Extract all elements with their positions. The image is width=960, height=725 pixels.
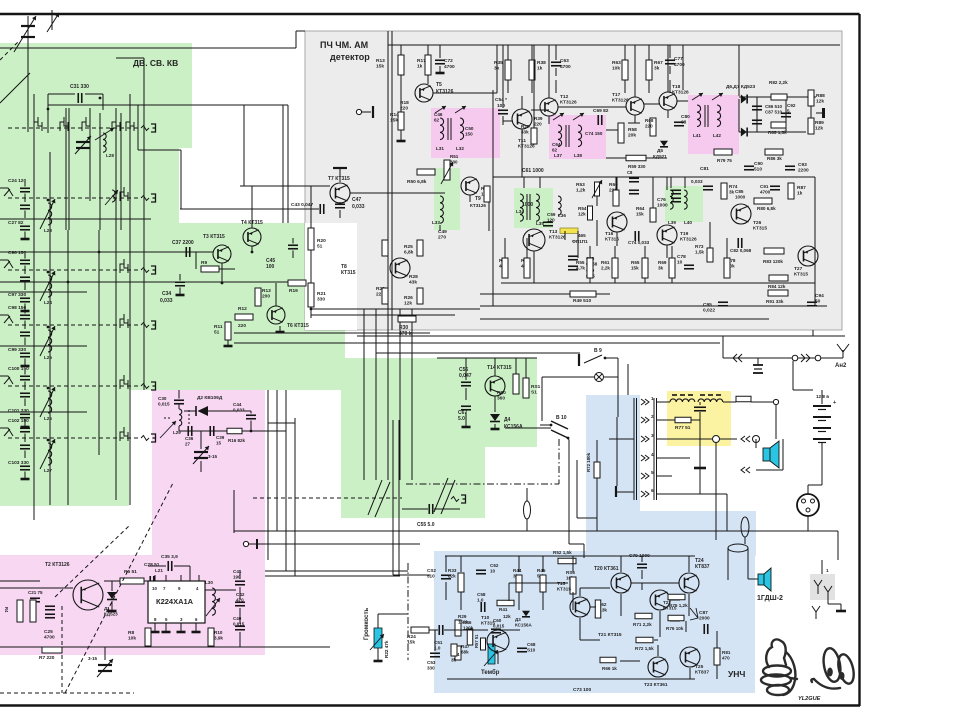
svg-text:5.0: 5.0 <box>458 416 465 422</box>
svg-text:R50 6,8k: R50 6,8k <box>407 179 427 185</box>
svg-text:0,022: 0,022 <box>703 308 715 314</box>
svg-text:360: 360 <box>497 396 505 402</box>
svg-text:R38: R38 <box>537 60 546 66</box>
svg-text:0,033: 0,033 <box>352 204 365 210</box>
svg-text:27: 27 <box>185 441 191 446</box>
svg-text:0,047: 0,047 <box>459 373 472 379</box>
svg-text:T5: T5 <box>436 82 442 88</box>
svg-text:C87 510: C87 510 <box>765 109 783 114</box>
svg-text:C95: C95 <box>703 302 712 308</box>
svg-text:100: 100 <box>266 264 275 270</box>
svg-text:C30: C30 <box>158 396 167 401</box>
svg-text:R91 33k: R91 33k <box>766 299 784 304</box>
svg-text:C35 3,9: C35 3,9 <box>161 554 178 560</box>
svg-text:R79 75: R79 75 <box>717 158 732 163</box>
svg-text:C90: C90 <box>754 161 763 167</box>
svg-text:C58: C58 <box>477 592 486 597</box>
svg-text:3k: 3k <box>729 189 735 194</box>
svg-text:S10: S10 <box>527 647 536 652</box>
svg-text:C98 150: C98 150 <box>8 305 26 311</box>
svg-text:C62: C62 <box>490 563 499 568</box>
svg-text:R16 82k: R16 82k <box>228 438 246 443</box>
svg-text:C101 330: C101 330 <box>8 408 29 414</box>
svg-text:C72: C72 <box>444 58 453 64</box>
svg-text:КТ3126: КТ3126 <box>672 90 689 96</box>
svg-text:4: 4 <box>651 452 654 457</box>
svg-text:R24: R24 <box>407 634 416 640</box>
svg-text:51: 51 <box>317 244 323 250</box>
svg-text:R59 330: R59 330 <box>628 164 646 169</box>
svg-text:C27 82: C27 82 <box>8 220 24 226</box>
svg-text:R29: R29 <box>458 614 467 619</box>
svg-text:КД523: КД523 <box>104 611 118 616</box>
svg-text:R64: R64 <box>636 206 645 211</box>
svg-text:220: 220 <box>534 121 542 126</box>
svg-text:C94: C94 <box>815 293 824 299</box>
svg-text:15k: 15k <box>407 640 415 646</box>
svg-text:R11: R11 <box>214 324 223 330</box>
svg-text:КТ3126: КТ3126 <box>560 100 577 106</box>
svg-text:R20: R20 <box>317 238 326 244</box>
svg-text:RS1: RS1 <box>531 384 541 390</box>
svg-text:220: 220 <box>400 106 408 112</box>
svg-text:0,033: 0,033 <box>233 407 245 412</box>
svg-text:R12: R12 <box>238 306 247 312</box>
svg-text:510: 510 <box>427 573 435 578</box>
svg-text:L31: L31 <box>436 146 444 151</box>
svg-text:C46: C46 <box>434 112 443 117</box>
svg-text:10: 10 <box>490 568 496 573</box>
svg-text:R13: R13 <box>376 58 385 64</box>
svg-text:330: 330 <box>317 297 325 303</box>
svg-text:12k: 12k <box>404 301 412 307</box>
svg-text:C43 0,047: C43 0,047 <box>291 202 313 208</box>
svg-text:C79 1000: C79 1000 <box>629 553 650 559</box>
svg-text:L26: L26 <box>44 416 52 421</box>
svg-text:КТ315: КТ315 <box>481 621 495 627</box>
svg-text:C100 150: C100 150 <box>8 366 29 372</box>
svg-text:T17: T17 <box>612 92 621 98</box>
svg-text:3: 3 <box>651 433 654 438</box>
svg-text:C91: C91 <box>760 184 769 189</box>
svg-text:R22 47k: R22 47k <box>384 640 389 658</box>
svg-text:2000: 2000 <box>699 616 710 622</box>
svg-text:C86 510: C86 510 <box>765 104 783 109</box>
svg-text:4700: 4700 <box>560 64 571 70</box>
svg-text:C76: C76 <box>657 197 666 203</box>
svg-text:3k: 3k <box>658 265 664 270</box>
svg-text:КС156А: КС156А <box>504 424 523 430</box>
svg-text:C39: C39 <box>216 435 225 440</box>
svg-text:0,033: 0,033 <box>691 179 703 184</box>
svg-text:62: 62 <box>434 117 440 122</box>
svg-text:R41: R41 <box>499 607 508 612</box>
svg-text:4700: 4700 <box>444 64 455 70</box>
svg-text:R33: R33 <box>448 568 457 573</box>
svg-text:L37: L37 <box>554 153 562 158</box>
svg-text:0,033: 0,033 <box>160 298 173 304</box>
svg-text:10: 10 <box>677 260 683 266</box>
svg-text:R86 3k: R86 3k <box>767 156 782 161</box>
svg-text:К224ХА1А: К224ХА1А <box>156 597 194 606</box>
svg-text:100: 100 <box>497 103 505 109</box>
svg-text:R35: R35 <box>494 60 503 66</box>
svg-text:R55: R55 <box>576 260 585 265</box>
svg-text:C68: C68 <box>527 642 536 647</box>
svg-text:R50: R50 <box>497 390 506 396</box>
svg-text:C87: C87 <box>699 610 708 616</box>
svg-text:T21 КТ315: T21 КТ315 <box>598 632 622 638</box>
svg-text:T19: T19 <box>680 231 689 237</box>
svg-text:C54 *: C54 * <box>495 97 507 103</box>
svg-text:12k: 12k <box>816 99 824 105</box>
svg-text:82k: 82k <box>448 573 456 578</box>
svg-text:C37 2200: C37 2200 <box>172 240 194 246</box>
svg-text:R10: R10 <box>214 630 223 635</box>
svg-text:C103 330: C103 330 <box>8 460 29 466</box>
svg-text:L41: L41 <box>693 133 701 138</box>
svg-text:1: 1 <box>651 396 654 401</box>
svg-text:Тембр: Тембр <box>481 669 500 676</box>
svg-text:УНЧ: УНЧ <box>728 669 745 679</box>
svg-text:R44: R44 <box>513 568 522 573</box>
svg-text:ФП1П1: ФП1П1 <box>572 239 588 244</box>
svg-text:Громкость: Громкость <box>363 607 370 640</box>
svg-text:C47: C47 <box>352 197 361 203</box>
svg-text:C92: C92 <box>787 103 796 108</box>
svg-text:R52 1,5k: R52 1,5k <box>553 550 572 555</box>
svg-text:C74 150: C74 150 <box>585 131 603 136</box>
svg-text:C25: C25 <box>44 629 53 635</box>
svg-text:ДВ. СВ. КВ: ДВ. СВ. КВ <box>133 58 178 68</box>
svg-text:Д6,Д7 КД523: Д6,Д7 КД523 <box>726 84 756 90</box>
svg-text:R73: R73 <box>695 244 704 249</box>
svg-text:1ГДШ-2: 1ГДШ-2 <box>757 595 783 602</box>
svg-text:C78: C78 <box>677 254 686 260</box>
svg-text:T27: T27 <box>794 266 803 272</box>
svg-text:R89: R89 <box>815 120 824 126</box>
svg-text:1000: 1000 <box>657 203 668 209</box>
svg-text:R72 180k: R72 180k <box>586 452 591 472</box>
svg-text:R67: R67 <box>654 60 663 66</box>
svg-text:T2 КТ3126: T2 КТ3126 <box>45 562 70 568</box>
svg-text:C61 1000: C61 1000 <box>522 168 544 174</box>
svg-text:12k: 12k <box>578 211 586 216</box>
svg-text:C59: C59 <box>547 212 556 217</box>
svg-text:КС156А: КС156А <box>515 622 532 627</box>
svg-text:R75 1,2k: R75 1,2k <box>669 603 688 608</box>
svg-text:200: 200 <box>262 294 270 300</box>
svg-text:R58: R58 <box>628 127 637 133</box>
svg-text:R21: R21 <box>317 291 326 297</box>
svg-text:L40: L40 <box>684 220 692 225</box>
svg-text:2: 2 <box>651 414 654 419</box>
svg-text:C97 330: C97 330 <box>8 292 26 298</box>
svg-text:C93: C93 <box>798 162 807 168</box>
svg-text:2200: 2200 <box>798 168 809 174</box>
svg-text:10k: 10k <box>612 66 620 72</box>
svg-text:5: 5 <box>787 108 790 113</box>
svg-text:T15: T15 <box>557 581 566 587</box>
svg-text:Д4: Д4 <box>504 417 511 423</box>
svg-text:C8: C8 <box>627 170 633 175</box>
svg-text:T9: T9 <box>475 196 481 202</box>
svg-text:L29: L29 <box>173 430 181 435</box>
svg-text:4700: 4700 <box>44 635 55 641</box>
svg-text:L24: L24 <box>44 300 52 305</box>
svg-text:R87: R87 <box>797 185 806 191</box>
svg-text:C99 330: C99 330 <box>8 347 26 353</box>
svg-text:T14 КТ315: T14 КТ315 <box>487 365 512 371</box>
svg-text:3,9k: 3,9k <box>214 635 223 640</box>
svg-text:T3 КТ315: T3 КТ315 <box>203 234 225 240</box>
svg-text:10: 10 <box>152 586 157 591</box>
svg-text:2,2k: 2,2k <box>601 265 610 270</box>
svg-text:C63: C63 <box>560 58 569 64</box>
svg-text:1000: 1000 <box>735 194 746 199</box>
svg-text:C36: C36 <box>185 436 194 441</box>
svg-text:C81: C81 <box>700 166 709 172</box>
svg-text:T6 КТ315: T6 КТ315 <box>287 323 309 329</box>
svg-text:4700: 4700 <box>760 189 771 194</box>
svg-text:150: 150 <box>465 131 473 136</box>
svg-text:L39: L39 <box>668 220 676 225</box>
svg-text:R26: R26 <box>404 295 413 301</box>
svg-text:R27: R27 <box>521 124 530 129</box>
svg-text:330: 330 <box>427 665 435 670</box>
svg-text:L34: L34 <box>516 209 524 214</box>
svg-text:R76 10k: R76 10k <box>666 626 684 631</box>
svg-text:0,015: 0,015 <box>158 401 170 406</box>
svg-text:62: 62 <box>552 147 558 152</box>
svg-text:L38: L38 <box>574 153 582 158</box>
svg-text:C64: C64 <box>552 142 561 147</box>
svg-text:470: 470 <box>722 655 730 660</box>
svg-text:510: 510 <box>754 167 762 173</box>
svg-text:КТ3126: КТ3126 <box>470 203 486 208</box>
svg-text:R18: R18 <box>400 100 409 106</box>
svg-text:L42: L42 <box>713 133 721 138</box>
svg-text:12k: 12k <box>815 126 823 132</box>
svg-text:6: 6 <box>651 488 654 493</box>
svg-text:L28: L28 <box>106 153 114 158</box>
svg-text:C82 0,068: C82 0,068 <box>730 248 752 253</box>
svg-text:RS6: RS6 <box>566 570 575 575</box>
svg-text:T23 КТ361: T23 КТ361 <box>644 682 668 688</box>
svg-text:C85: C85 <box>735 189 744 194</box>
svg-text:R82 2,2k: R82 2,2k <box>769 80 788 85</box>
svg-text:T16: T16 <box>605 231 614 237</box>
svg-text:R9: R9 <box>201 260 207 266</box>
svg-text:ПЧ ЧМ. АМ: ПЧ ЧМ. АМ <box>320 40 368 50</box>
svg-text:КТ3126: КТ3126 <box>436 89 454 95</box>
svg-text:R19: R19 <box>289 288 298 294</box>
svg-text:C50: C50 <box>465 126 474 131</box>
svg-text:КТ315: КТ315 <box>557 587 571 593</box>
svg-text:R14: R14 <box>390 112 399 118</box>
svg-text:T20 КТ361: T20 КТ361 <box>594 566 619 572</box>
svg-text:В 10: В 10 <box>556 415 567 421</box>
svg-text:R66 1k: R66 1k <box>602 666 617 671</box>
svg-text:КТ837: КТ837 <box>695 564 710 570</box>
svg-text:L27: L27 <box>44 468 52 473</box>
svg-text:3k: 3k <box>654 66 660 72</box>
svg-text:3-15: 3-15 <box>208 454 218 459</box>
svg-text:C69 82: C69 82 <box>593 108 609 114</box>
svg-text:T13: T13 <box>549 229 558 235</box>
svg-text:C41: C41 <box>233 569 242 574</box>
svg-text:КТ3126: КТ3126 <box>612 98 629 104</box>
svg-text:43k: 43k <box>409 280 417 286</box>
svg-text:Д2 КВ109Д: Д2 КВ109Д <box>197 395 223 401</box>
svg-text:C49: C49 <box>438 229 447 235</box>
svg-text:T25: T25 <box>695 664 704 670</box>
svg-text:10k: 10k <box>128 636 136 642</box>
svg-text:1k: 1k <box>417 64 423 70</box>
svg-text:T12: T12 <box>560 94 569 100</box>
svg-text:КТ315: КТ315 <box>341 270 356 276</box>
svg-text:R65: R65 <box>631 260 640 265</box>
svg-text:+: + <box>833 400 836 406</box>
svg-text:C55 5.0: C55 5.0 <box>417 522 435 528</box>
svg-text:T18: T18 <box>672 84 681 90</box>
svg-text:15k: 15k <box>390 118 398 124</box>
svg-text:L32: L32 <box>456 146 464 151</box>
svg-text:1000: 1000 <box>522 202 533 208</box>
svg-text:T7 КТ315: T7 КТ315 <box>328 176 350 182</box>
svg-text:68: 68 <box>681 120 687 126</box>
svg-text:1.0: 1.0 <box>477 597 484 602</box>
svg-text:C77: C77 <box>674 56 683 62</box>
svg-text:КТ315: КТ315 <box>753 226 767 232</box>
svg-text:R39: R39 <box>534 116 543 121</box>
svg-text:68k: 68k <box>461 649 469 654</box>
svg-text:детектор: детектор <box>330 52 370 62</box>
svg-text:15k: 15k <box>376 64 384 70</box>
svg-text:T26: T26 <box>753 220 762 226</box>
svg-text:R25: R25 <box>404 244 413 250</box>
svg-text:C96 150: C96 150 <box>8 250 26 256</box>
svg-text:L33: L33 <box>432 220 440 225</box>
svg-text:15k: 15k <box>636 211 644 216</box>
svg-text:L30: L30 <box>205 580 213 585</box>
svg-text:R71 2,2k: R71 2,2k <box>633 622 652 627</box>
svg-text:R45: R45 <box>537 568 546 573</box>
svg-text:R69: R69 <box>658 260 667 265</box>
svg-text:R4: R4 <box>4 607 9 613</box>
svg-text:R84 12k: R84 12k <box>768 284 786 289</box>
svg-text:R57 51: R57 51 <box>474 634 479 648</box>
svg-text:КТ3126: КТ3126 <box>549 235 566 241</box>
svg-text:L23: L23 <box>44 228 52 233</box>
svg-text:КТ315: КТ315 <box>794 272 808 278</box>
svg-text:15k: 15k <box>631 265 639 270</box>
svg-text:3-15: 3-15 <box>88 656 98 661</box>
svg-text:R81: R81 <box>722 650 731 655</box>
svg-text:CS2: CS2 <box>427 568 436 573</box>
svg-text:C102 150: C102 150 <box>8 418 29 424</box>
svg-text:1k: 1k <box>537 66 543 72</box>
svg-text:150k: 150k <box>458 619 469 624</box>
svg-text:270: 270 <box>438 235 446 241</box>
svg-text:R83 120k: R83 120k <box>763 259 783 264</box>
svg-text:R49 510: R49 510 <box>573 298 591 304</box>
svg-text:C73 100: C73 100 <box>573 687 591 693</box>
svg-text:Ан2: Ан2 <box>835 363 847 369</box>
svg-text:C53: C53 <box>427 660 436 665</box>
svg-text:S1: S1 <box>531 390 537 396</box>
svg-text:220: 220 <box>238 323 246 329</box>
svg-text:12,8 в: 12,8 в <box>816 394 829 399</box>
svg-text:Д3: Д3 <box>515 617 521 622</box>
svg-text:R80 6,8k: R80 6,8k <box>757 206 776 211</box>
svg-text:R72 1,5k: R72 1,5k <box>635 646 654 651</box>
svg-text:R68: R68 <box>645 118 654 123</box>
svg-text:R61: R61 <box>601 260 610 265</box>
svg-text:C21 75: C21 75 <box>28 590 43 595</box>
svg-text:12k: 12k <box>503 614 511 619</box>
svg-text:КТ837: КТ837 <box>695 670 709 676</box>
svg-text:51: 51 <box>214 330 220 336</box>
svg-text:R8: R8 <box>128 630 134 636</box>
svg-text:R28: R28 <box>409 274 418 280</box>
svg-text:R88: R88 <box>816 93 825 99</box>
svg-text:15: 15 <box>216 440 222 445</box>
svg-text:B 9: B 9 <box>594 348 602 354</box>
svg-text:R13: R13 <box>262 288 271 294</box>
svg-text:1: 1 <box>826 568 829 573</box>
svg-text:20k: 20k <box>628 133 636 139</box>
svg-text:КТ3126: КТ3126 <box>680 237 697 243</box>
svg-text:R63: R63 <box>612 60 621 66</box>
svg-text:R85 1,5k: R85 1,5k <box>768 130 787 135</box>
svg-text:C24 120: C24 120 <box>8 178 26 184</box>
svg-text:C44: C44 <box>233 402 242 407</box>
svg-text:L25: L25 <box>44 355 52 360</box>
svg-text:1,2k: 1,2k <box>576 188 586 194</box>
svg-text:C34: C34 <box>162 291 171 297</box>
svg-text:465: 465 <box>578 233 586 238</box>
svg-text:4,7k: 4,7k <box>576 265 585 270</box>
svg-text:5: 5 <box>651 470 654 475</box>
svg-text:R77 51: R77 51 <box>675 425 691 431</box>
svg-text:1,5k: 1,5k <box>695 249 704 254</box>
svg-text:T10: T10 <box>481 615 490 621</box>
svg-text:220: 220 <box>645 123 653 128</box>
svg-text:YL2GUE: YL2GUE <box>798 696 821 702</box>
svg-text:6,8k: 6,8k <box>404 250 414 256</box>
svg-text:R51: R51 <box>450 154 459 159</box>
svg-text:C31 330: C31 330 <box>70 84 89 90</box>
svg-text:C80: C80 <box>681 114 690 120</box>
svg-text:L21: L21 <box>155 568 163 573</box>
svg-text:R7 220: R7 220 <box>39 655 55 661</box>
svg-text:1k: 1k <box>797 191 803 197</box>
svg-text:3k: 3k <box>451 657 457 662</box>
svg-text:R53: R53 <box>576 182 585 188</box>
svg-text:R54: R54 <box>578 206 587 211</box>
